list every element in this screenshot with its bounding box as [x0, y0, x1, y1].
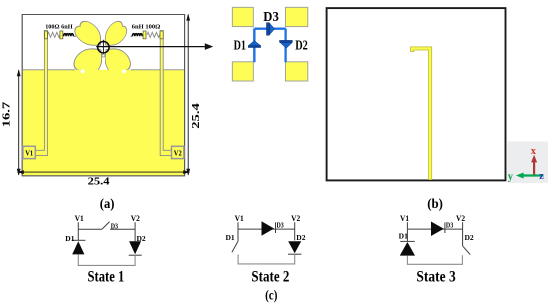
svg-text:V1: V1 [400, 214, 409, 223]
svg-text:D1: D1 [226, 234, 236, 242]
svg-text:State 2: State 2 [251, 268, 289, 285]
svg-text:x: x [531, 146, 536, 157]
svg-text:D1: D1 [234, 38, 246, 53]
svg-text:D3: D3 [277, 222, 285, 230]
svg-text:V2: V2 [174, 149, 182, 158]
svg-text:(a): (a) [100, 196, 115, 211]
svg-text:D3: D3 [446, 222, 454, 230]
svg-text:V1: V1 [235, 214, 244, 223]
svg-text:100Ω 6nH: 100Ω 6nH [45, 24, 72, 31]
svg-text:D2: D2 [296, 234, 306, 242]
svg-text:D1: D1 [65, 235, 75, 243]
svg-text:D2: D2 [295, 38, 308, 53]
svg-text:(b): (b) [427, 196, 443, 211]
svg-text:V2: V2 [456, 214, 465, 223]
svg-text:D1: D1 [399, 233, 409, 241]
svg-text:D3: D3 [263, 9, 279, 24]
svg-text:D3: D3 [111, 222, 119, 230]
svg-text:D2: D2 [137, 235, 147, 243]
svg-text:State 3: State 3 [416, 268, 455, 285]
svg-text:16.7: 16.7 [2, 102, 13, 128]
svg-text:25.4: 25.4 [88, 177, 110, 188]
svg-text:V2: V2 [131, 214, 140, 223]
svg-text:6nH 100Ω: 6nH 100Ω [132, 24, 161, 31]
svg-text:V1: V1 [25, 149, 33, 158]
svg-text:V1: V1 [75, 214, 84, 223]
svg-text:y: y [508, 172, 513, 183]
svg-text:z: z [539, 171, 544, 182]
svg-text:State 1: State 1 [88, 268, 125, 285]
svg-text:V2: V2 [291, 214, 300, 223]
svg-text:25.4: 25.4 [191, 103, 202, 129]
svg-text:(c): (c) [265, 288, 278, 303]
svg-text:D2: D2 [465, 234, 475, 242]
